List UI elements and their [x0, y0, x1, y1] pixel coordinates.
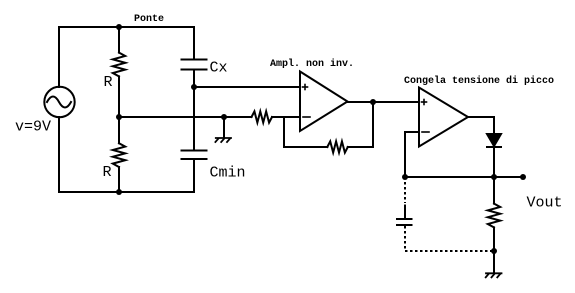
wire dashed hold cap lower [404, 226, 406, 251]
wire left vertical lower [58, 117, 60, 192]
ground G2 [486, 273, 502, 277]
op-amp U2 [419, 88, 468, 147]
svg-text:R: R [104, 74, 113, 91]
resistor R5 output [488, 204, 500, 228]
wire output node horizontal [405, 176, 523, 178]
wire feedback bottom left [284, 146, 327, 148]
diode D1 [487, 134, 501, 147]
wire dashed bottom horizontal [405, 250, 494, 252]
capacitor C hold [397, 219, 412, 225]
wire bridge center lower [118, 167, 120, 192]
wire top horizontal [59, 26, 194, 28]
node ground bottom [491, 248, 497, 254]
node junction ground stub [221, 114, 227, 120]
svg-text:Vout: Vout [527, 195, 563, 212]
wire ground stub [223, 117, 225, 138]
node junction Cx [191, 84, 197, 90]
wire feedback right vertical [372, 102, 374, 147]
wire bridge center middle [118, 76, 120, 143]
node Vout terminal [520, 174, 526, 180]
wire feedback bottom right [348, 146, 373, 148]
wire diode to node [493, 147, 495, 177]
wire Cmin lower [193, 159, 195, 192]
node junction bottom left [116, 189, 122, 195]
op-amp U1 [300, 72, 348, 132]
wire U1 output [348, 101, 420, 103]
resistor R4 feedback [327, 141, 348, 152]
svg-text:Cmin: Cmin [210, 165, 246, 182]
wire U2 inverting input [405, 132, 419, 177]
wire Cx lower [193, 70, 195, 151]
wire R5 to ground node [493, 227, 495, 273]
wire noninverting input [194, 86, 300, 88]
node junction mid left [116, 114, 122, 120]
svg-text:v=9V: v=9V [15, 119, 51, 136]
resistor R2 [113, 143, 125, 167]
AC source V1 [44, 87, 74, 117]
node junction top [116, 24, 122, 30]
capacitor Cx [182, 60, 207, 70]
node U1 output [370, 99, 376, 105]
wire feedback left vertical [283, 117, 285, 147]
svg-text:Ampl. non inv.: Ampl. non inv. [270, 58, 354, 70]
wire to inverting input [272, 116, 300, 118]
capacitor Cmin [182, 151, 207, 160]
node diode resistor [491, 174, 497, 180]
resistor R3 series [252, 111, 273, 122]
svg-text:R: R [103, 164, 112, 181]
wire bottom horizontal [59, 191, 194, 193]
ground G1 [215, 138, 231, 142]
wire Cx upper [193, 27, 195, 59]
wire bridge center upper [118, 27, 120, 53]
wire node to R5 [493, 177, 495, 204]
node hold left [402, 174, 408, 180]
svg-text:Cx: Cx [210, 60, 228, 77]
wire U2 output [468, 117, 494, 134]
wire dashed hold cap upper [404, 177, 406, 203]
wire left vertical upper [58, 27, 60, 87]
svg-text:Congela tensione di picco: Congela tensione di picco [404, 75, 554, 87]
wire middle horizontal [119, 116, 252, 118]
svg-text:Ponte: Ponte [134, 14, 164, 25]
resistor R1 [113, 53, 125, 77]
